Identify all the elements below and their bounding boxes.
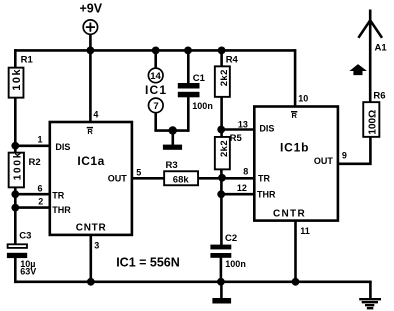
svg-text:IC1b: IC1b: [280, 140, 309, 154]
svg-text:5: 5: [136, 167, 141, 177]
svg-text:100n: 100n: [192, 101, 213, 111]
svg-text:DIS: DIS: [259, 124, 274, 134]
svg-text:IC1 = 556N: IC1 = 556N: [116, 255, 180, 269]
svg-text:2k2: 2k2: [219, 140, 230, 157]
svg-text:DIS: DIS: [55, 142, 70, 152]
svg-text:R5: R5: [230, 133, 243, 144]
svg-text:C3: C3: [19, 230, 31, 241]
svg-text:R: R: [87, 127, 93, 136]
svg-text:8: 8: [243, 167, 248, 177]
svg-text:100Ω: 100Ω: [368, 110, 379, 135]
svg-text:R3: R3: [166, 160, 178, 171]
svg-text:OUT: OUT: [108, 174, 128, 184]
svg-text:A1: A1: [375, 43, 388, 54]
svg-text:TR: TR: [52, 191, 64, 201]
svg-text:CNTR: CNTR: [273, 208, 306, 219]
svg-text:1: 1: [38, 135, 43, 145]
svg-text:R1: R1: [21, 54, 34, 65]
svg-text:14: 14: [150, 71, 161, 82]
svg-text:100k: 100k: [12, 151, 23, 180]
svg-text:4: 4: [93, 110, 98, 120]
svg-text:68k: 68k: [173, 174, 190, 185]
svg-text:THR: THR: [52, 205, 71, 215]
svg-text:TR: TR: [258, 173, 270, 183]
svg-text:7: 7: [153, 101, 158, 112]
svg-text:3: 3: [94, 240, 99, 250]
svg-text:R2: R2: [29, 157, 41, 168]
svg-text:6: 6: [38, 184, 43, 194]
svg-text:+9V: +9V: [80, 2, 103, 16]
svg-text:OUT: OUT: [314, 156, 334, 166]
svg-text:10: 10: [298, 93, 308, 103]
svg-text:R6: R6: [373, 90, 385, 101]
svg-text:CNTR: CNTR: [76, 223, 107, 234]
svg-text:9: 9: [342, 150, 347, 160]
svg-text:100n: 100n: [225, 259, 246, 269]
svg-text:IC1a: IC1a: [77, 154, 104, 168]
svg-text:13: 13: [238, 119, 248, 129]
svg-text:THR: THR: [257, 190, 276, 200]
svg-text:63V: 63V: [20, 266, 36, 276]
svg-text:2: 2: [38, 197, 43, 207]
svg-text:12: 12: [237, 183, 247, 193]
svg-text:IC1: IC1: [145, 83, 167, 97]
svg-text:C2: C2: [225, 233, 237, 244]
svg-text:R4: R4: [226, 55, 239, 66]
svg-text:10k: 10k: [11, 68, 23, 91]
svg-text:11: 11: [300, 226, 310, 236]
svg-text:2k2: 2k2: [219, 69, 230, 86]
svg-text:C1: C1: [193, 73, 206, 84]
